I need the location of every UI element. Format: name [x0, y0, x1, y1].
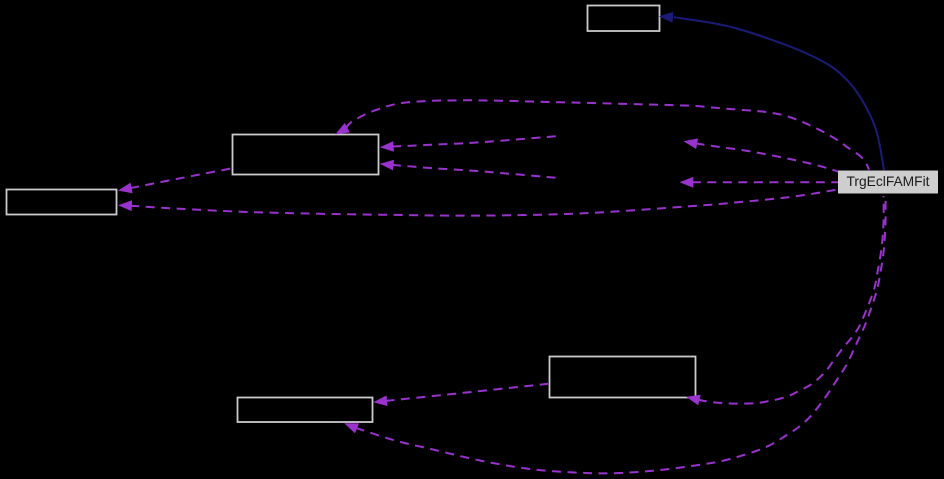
- edge (dashed): TrgEclFAMFit to hidden node (upper): [684, 138, 839, 171]
- node: empty class box (left): [7, 190, 117, 215]
- edge (dashed): TrgEclFAMFit to bottom middle box (curved): [686, 196, 884, 405]
- node: empty class box (middle): [233, 135, 379, 175]
- edge (dashed): hidden node to middle box (lower arrow): [380, 160, 559, 178]
- node TrgEclFAMFit (current class, filled): [838, 171, 938, 194]
- edge (solid blue, inheritance): TrgEclFAMFit to top box: [659, 12, 884, 170]
- edge (dashed): middle box to left box: [118, 168, 232, 193]
- edge (dashed): hidden node to middle box (upper arrow): [380, 136, 559, 152]
- edge (dashed): TrgEclFAMFit to bottom left box (big sweep): [344, 196, 885, 473]
- edge (dashed): TrgEclFAMFit to hidden node (lower): [680, 177, 839, 188]
- edge (dashed): bottom middle box to bottom left box: [373, 384, 548, 406]
- node: empty class box (bottom left): [238, 398, 373, 423]
- node: empty class box (bottom middle): [550, 357, 696, 398]
- edge (dashed): TrgEclFAMFit to middle box (top route): [335, 100, 869, 169]
- edge (dashed): TrgEclFAMFit to left box (long bottom route): [118, 190, 838, 216]
- node: empty class box (top, base class): [588, 6, 660, 32]
- svg-text:TrgEclFAMFit: TrgEclFAMFit: [846, 174, 929, 189]
